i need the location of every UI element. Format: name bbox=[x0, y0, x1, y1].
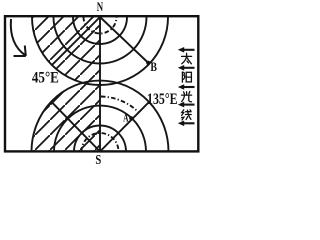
svg-text:A: A bbox=[123, 113, 129, 125]
svg-text:B: B bbox=[150, 60, 157, 74]
svg-text:135°E: 135°E bbox=[147, 91, 178, 108]
svg-text:S: S bbox=[95, 152, 101, 167]
svg-text:45°E: 45°E bbox=[32, 70, 59, 87]
svg-text:N: N bbox=[97, 0, 104, 14]
